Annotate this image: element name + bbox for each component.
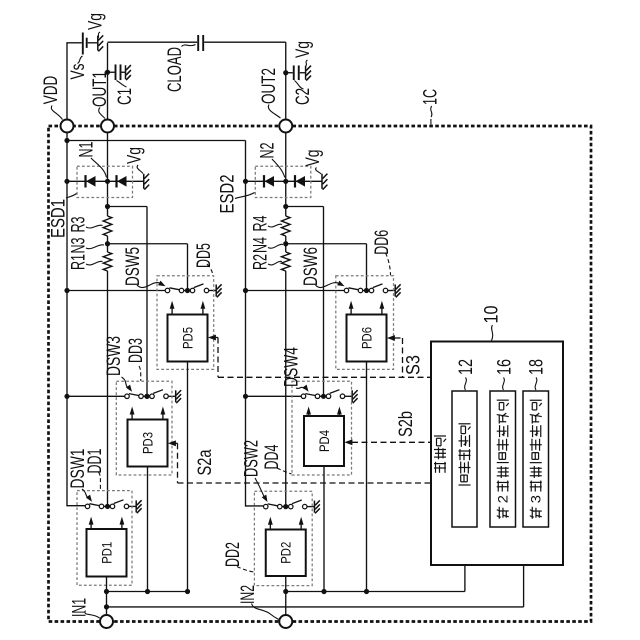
capacitor C1 plates bbox=[115, 64, 117, 80]
wire IN1 rail to control box bbox=[107, 606, 524, 608]
svg-text:3: 3 bbox=[529, 495, 544, 503]
wire feed to DSW1 bbox=[84, 505, 86, 507]
svg-text:10: 10 bbox=[482, 306, 503, 324]
signal S3 line from PD5 bbox=[208, 335, 216, 341]
switch DSW5 contact 3 bbox=[190, 288, 195, 293]
leader for DSW6 bbox=[316, 283, 340, 288]
switch DSW4 contact 1 bbox=[301, 394, 306, 399]
leader for C1 bbox=[117, 81, 127, 88]
svg-text:DSW6: DSW6 bbox=[301, 247, 322, 286]
wire R1 down to DSW1 common bbox=[107, 271, 109, 506]
2nd control signal generation box 16 bbox=[490, 391, 516, 527]
leader for 1C bbox=[431, 106, 432, 117]
switch DSW2 open lever bbox=[292, 500, 302, 504]
IC boundary box 1C (dashed) bbox=[49, 126, 592, 622]
wire PD1 to IN1 rail bbox=[106, 577, 108, 616]
switch DSW5 contact 4 bbox=[204, 288, 209, 293]
svg-text:DSW5: DSW5 bbox=[123, 247, 144, 286]
driver block DD2 dashed box bbox=[254, 491, 312, 585]
wire top to battery Vs bbox=[66, 42, 81, 44]
switch DSW6 contact 4 bbox=[383, 288, 388, 293]
svg-text:ESD2: ESD2 bbox=[218, 175, 239, 214]
wire PD collector rail channel 1 bbox=[107, 591, 188, 593]
wire DSW4 common segment bbox=[320, 395, 326, 397]
arrow PD4 output right bbox=[338, 411, 340, 417]
svg-text:CLOAD: CLOAD bbox=[165, 47, 186, 92]
svg-text:R4: R4 bbox=[251, 215, 272, 231]
leader for Vs bbox=[78, 56, 83, 64]
svg-text:R1: R1 bbox=[69, 254, 90, 270]
leader for 10 bbox=[492, 325, 493, 341]
wire R2 down to DSW2 common bbox=[285, 271, 287, 507]
arrow PD6 output left bbox=[350, 305, 352, 315]
switch DSW3 contact 4 bbox=[164, 394, 169, 399]
wire PD5 to IN1 rail bbox=[187, 362, 189, 592]
ground Vg (battery) bbox=[98, 35, 103, 51]
resistor R4 bbox=[281, 216, 290, 236]
svg-text:S2b: S2b bbox=[396, 411, 417, 437]
leader for 12 bbox=[465, 378, 467, 391]
label polarity determination unit bbox=[459, 475, 471, 485]
wire branch OUT2 node to DSW4 common bbox=[283, 204, 288, 209]
ESD1 dashed box bbox=[77, 166, 133, 197]
junction DSW5 feed on VDD rail bbox=[64, 288, 69, 293]
svg-text:IN2: IN2 bbox=[238, 585, 259, 604]
switch DSW5 contact 2 bbox=[179, 288, 184, 293]
switch DSW5 closed lever bbox=[169, 288, 179, 290]
leader for R4 bbox=[268, 224, 282, 227]
junction PD1 on rail bbox=[104, 589, 109, 594]
ground (DSW4) bbox=[352, 390, 357, 403]
wire OUT1 to capacitor CLOAD bbox=[108, 41, 198, 43]
leader for DD3 bbox=[139, 366, 141, 381]
wire feed to DSW4 bbox=[246, 395, 302, 397]
svg-text:R2: R2 bbox=[251, 254, 272, 270]
terminal VDD bbox=[61, 120, 74, 133]
svg-text:N1: N1 bbox=[77, 142, 98, 158]
arrow PD4 output left bbox=[308, 411, 310, 417]
wire C1 to ground bbox=[122, 71, 126, 73]
wire VDD branch 2 corner to DSW2 bbox=[246, 505, 264, 507]
svg-text:PD1: PD1 bbox=[99, 542, 114, 564]
switch DSW1 closed lever bbox=[89, 504, 99, 506]
3rd control signal generation box 18 bbox=[523, 391, 549, 527]
switch DSW1 open lever bbox=[114, 500, 124, 504]
ground (DSW5) bbox=[216, 284, 221, 297]
junction PD6 on rail bbox=[364, 589, 369, 594]
switch DSW5 open lever bbox=[194, 284, 204, 288]
leader for DSW2 bbox=[255, 478, 265, 499]
wire down to OUT2 terminal bbox=[285, 42, 287, 120]
leader for 18 bbox=[535, 378, 537, 391]
arrow PD6 output right bbox=[381, 305, 383, 315]
svg-text:PD3: PD3 bbox=[140, 432, 155, 454]
leader for DSW5 bbox=[137, 283, 161, 288]
photodiode box PD6 bbox=[347, 315, 387, 362]
wire PD collector rail channel 2 to control box bbox=[286, 591, 465, 593]
switch DSW4 contact 2 bbox=[315, 394, 320, 399]
wire DSW3 to ground bbox=[168, 395, 175, 397]
svg-text:PD4: PD4 bbox=[317, 430, 332, 452]
junction ESD1 at VDD rail bbox=[64, 179, 69, 184]
junction PD4 on rail bbox=[321, 589, 326, 594]
leader for N2 bbox=[272, 159, 285, 178]
leader for DSW4 bbox=[296, 387, 305, 388]
arrow PD3 output left bbox=[131, 411, 133, 420]
svg-text:R3: R3 bbox=[69, 217, 90, 233]
leader for IN1 bbox=[85, 611, 100, 619]
wire branch N4 to DSW6 common bbox=[286, 243, 367, 245]
svg-text:DD5: DD5 bbox=[194, 243, 215, 268]
wire C2 to ground bbox=[300, 72, 305, 74]
switch DSW6 open lever bbox=[373, 284, 383, 288]
switch DSW2 contact 2 bbox=[278, 504, 283, 509]
svg-text:N2: N2 bbox=[258, 143, 279, 159]
leader for Vg (C2 ground) bbox=[306, 60, 308, 66]
svg-text:1C: 1C bbox=[421, 89, 442, 105]
wire OUT1 chain upper bbox=[107, 133, 109, 217]
wire PD3 to IN1 rail bbox=[147, 467, 149, 592]
leader for N3 bbox=[86, 245, 104, 249]
wire DSW6 to ground bbox=[388, 290, 395, 292]
wire VDD rail corner to DSW1 bbox=[67, 505, 85, 507]
wire VDD rail vertical bbox=[66, 133, 68, 507]
switch DSW6 contact 2 bbox=[358, 288, 363, 293]
wire branch N3 to DSW5 common bbox=[108, 243, 188, 245]
switch DSW6 closed lever bbox=[348, 288, 358, 290]
leader for DD1 bbox=[99, 472, 101, 490]
polarity determination box 12 bbox=[452, 391, 477, 527]
signal S3 branch from PD6 bbox=[387, 335, 395, 341]
resistor R3 bbox=[103, 216, 112, 236]
wire DSW6 common segment bbox=[363, 290, 369, 292]
wire feed to DSW3 bbox=[67, 395, 125, 397]
leader for N4 bbox=[268, 244, 283, 248]
leader for 16 bbox=[503, 378, 505, 391]
svg-text:S3: S3 bbox=[404, 355, 425, 375]
switch DSW3 closed lever bbox=[129, 394, 139, 396]
svg-text:C2: C2 bbox=[293, 88, 314, 105]
arrow PD2 output left bbox=[269, 521, 271, 530]
ground (DSW6) bbox=[395, 284, 400, 297]
label 2nd control signal generation unit bbox=[497, 507, 509, 519]
junction DSW6 common bbox=[364, 288, 369, 293]
switch DSW1 contact 3 bbox=[110, 504, 115, 509]
wire top rail to channel 2 bbox=[67, 140, 246, 142]
wire R3 to N3 bbox=[107, 236, 109, 252]
leader for DD6 bbox=[386, 253, 391, 275]
leader for N1 bbox=[91, 158, 107, 178]
wire CLOAD to OUT2 corner bbox=[204, 41, 286, 43]
svg-text:Vg: Vg bbox=[293, 41, 314, 58]
leader for Vg (ESD1) bbox=[137, 165, 143, 174]
svg-text:DD2: DD2 bbox=[223, 542, 244, 567]
resistor R2 bbox=[281, 252, 290, 271]
ground (C1) bbox=[126, 65, 131, 80]
switch DSW3 contact 2 bbox=[139, 394, 144, 399]
ground Vg (C2) bbox=[306, 66, 311, 81]
photodiode box PD5 bbox=[168, 315, 208, 362]
resistor R1 bbox=[103, 252, 112, 271]
arrow PD3 output right bbox=[162, 411, 164, 420]
wire to capacitor C1 bbox=[108, 71, 115, 73]
switch DSW6 contact 1 bbox=[344, 288, 349, 293]
svg-text:Vg: Vg bbox=[125, 147, 146, 164]
wire DSW4 to ground bbox=[345, 395, 352, 397]
leader for ESD1 bbox=[66, 194, 77, 199]
junction ESD2 at OUT2 / node N2 bbox=[283, 179, 288, 184]
node N4 junction bbox=[283, 241, 288, 246]
wire R4 to N4 bbox=[285, 236, 287, 252]
leader for DD4 bbox=[277, 468, 292, 474]
driver block DD3 dashed box bbox=[116, 381, 172, 475]
junction DSW3 feed on VDD rail bbox=[64, 394, 69, 399]
svg-text:N3: N3 bbox=[69, 238, 90, 254]
wire feed to DSW2 bbox=[262, 506, 264, 508]
svg-text:S2a: S2a bbox=[195, 449, 216, 475]
svg-text:PD5: PD5 bbox=[180, 327, 195, 349]
capacitor C2 plates bbox=[293, 65, 295, 80]
arrow PD1 output left bbox=[90, 521, 92, 529]
ground Vg (ESD2) bbox=[322, 174, 327, 190]
wire VDD terminal to top bbox=[66, 43, 68, 133]
switch DSW6 contact 3 bbox=[369, 288, 374, 293]
wire ESD1 diode row bbox=[67, 180, 143, 182]
driver block DD1 dashed box bbox=[77, 491, 132, 586]
wire feed to DSW5 bbox=[67, 290, 165, 292]
driver block DD6 dashed box bbox=[336, 276, 394, 370]
photodiode box PD4 bbox=[304, 416, 344, 466]
svg-text:18: 18 bbox=[527, 359, 548, 375]
switch DSW4 contact 3 bbox=[326, 394, 331, 399]
wire DSW1 common segment bbox=[104, 505, 110, 507]
arrow PD2 output right bbox=[300, 521, 302, 530]
svg-text:DD4: DD4 bbox=[262, 444, 283, 469]
wire OUT2 chain upper bbox=[285, 133, 287, 217]
junction PD2 on rail bbox=[283, 589, 288, 594]
switch DSW1 contact 1 bbox=[85, 504, 90, 509]
terminal IN2 bbox=[279, 615, 292, 628]
svg-text:12: 12 bbox=[456, 359, 477, 375]
terminal OUT2 bbox=[279, 120, 292, 133]
wire battery to ground Vg bbox=[88, 42, 98, 44]
switch DSW4 contact 4 bbox=[340, 394, 345, 399]
arrow PD1 output right bbox=[121, 521, 123, 529]
svg-text:DSW4: DSW4 bbox=[282, 347, 303, 387]
leader for Vg (ESD2) bbox=[316, 168, 322, 175]
junction PD3 on rail bbox=[145, 589, 150, 594]
svg-text:ESD1: ESD1 bbox=[49, 199, 70, 238]
wire VDD branch 2 vertical bbox=[245, 141, 247, 507]
svg-text:DSW3: DSW3 bbox=[104, 336, 125, 376]
capacitor CLOAD plates bbox=[197, 35, 199, 51]
diode (ESD1 right) bbox=[117, 176, 127, 187]
switch DSW4 closed lever bbox=[305, 394, 315, 396]
svg-text:2: 2 bbox=[496, 495, 511, 503]
junction DSW2 common bbox=[283, 504, 288, 509]
ground (DSW1) bbox=[136, 500, 141, 513]
leader for Vg (battery ground) bbox=[98, 32, 100, 39]
junction DSW5 common bbox=[185, 288, 190, 293]
junction DSW4 common bbox=[321, 394, 326, 399]
wire DSW1 to ground bbox=[129, 505, 136, 507]
wire DSW2 to ground bbox=[307, 506, 314, 508]
svg-text:OUT1: OUT1 bbox=[90, 71, 111, 107]
signal S2a line from PD3 bbox=[168, 440, 176, 446]
svg-text:DD6: DD6 bbox=[372, 230, 393, 255]
control unit box 10 bbox=[431, 342, 563, 566]
junction ESD2 at VDD branch bbox=[243, 179, 248, 184]
diode (ESD2 right) bbox=[296, 176, 306, 187]
junction ESD1 at OUT1 / node N1 bbox=[105, 179, 110, 184]
node N3 junction bbox=[105, 241, 110, 246]
leader for DSW1 bbox=[82, 489, 89, 499]
leader for DD2 bbox=[237, 567, 254, 573]
leader for C2 bbox=[295, 81, 304, 90]
switch DSW3 open lever bbox=[153, 390, 163, 394]
terminal OUT1 bbox=[101, 120, 114, 133]
switch DSW2 closed lever bbox=[268, 504, 278, 506]
svg-text:DSW2: DSW2 bbox=[242, 440, 263, 477]
ESD2 dashed box bbox=[255, 166, 310, 197]
switch DSW5 contact 1 bbox=[165, 288, 170, 293]
leader for DD5 bbox=[207, 264, 213, 275]
wire DSW5 to ground bbox=[209, 290, 216, 292]
wire PD2 to IN2 rail bbox=[285, 576, 287, 615]
photodiode box PD2 bbox=[266, 530, 306, 577]
photodiode box PD1 bbox=[87, 529, 127, 577]
switch DSW2 contact 3 bbox=[289, 504, 294, 509]
arrow PD5 output right bbox=[202, 305, 204, 315]
leader for DSW3 bbox=[122, 377, 129, 389]
svg-text:DD1: DD1 bbox=[85, 449, 106, 474]
leader for ESD2 bbox=[235, 193, 255, 199]
junction C1 tap on OUT1 wire bbox=[105, 70, 110, 75]
switch DSW1 contact 2 bbox=[99, 504, 104, 509]
wire PD6 to IN2 rail bbox=[366, 362, 368, 592]
svg-text:PD6: PD6 bbox=[359, 327, 374, 349]
wire PD4 to IN2 rail bbox=[323, 466, 325, 592]
junction DSW6 feed on VDD branch 2 bbox=[243, 288, 248, 293]
svg-text:N4: N4 bbox=[251, 237, 272, 253]
switch DSW2 contact 1 bbox=[264, 504, 269, 509]
signal S2b line from PD4 bbox=[344, 439, 352, 445]
svg-text:VDD: VDD bbox=[41, 76, 62, 105]
svg-text:PD2: PD2 bbox=[279, 542, 294, 564]
svg-text:16: 16 bbox=[495, 359, 516, 375]
label 3rd control signal generation unit bbox=[530, 507, 542, 519]
leader for IN2 bbox=[252, 604, 280, 620]
photodiode box PD3 bbox=[128, 420, 168, 467]
wire feed to DSW6 bbox=[246, 290, 345, 292]
junction DSW3 common bbox=[144, 394, 149, 399]
switch DSW2 contact 4 bbox=[303, 504, 308, 509]
driver block DD5 dashed box bbox=[157, 276, 214, 370]
wire to capacitor C2 bbox=[286, 72, 293, 74]
junction VDD/top rail bbox=[64, 138, 69, 143]
svg-text:Vg: Vg bbox=[303, 150, 324, 167]
switch DSW3 contact 1 bbox=[125, 394, 130, 399]
wire DSW5 common segment bbox=[184, 290, 190, 292]
battery Vs plates bbox=[82, 33, 84, 55]
leader for R3 bbox=[86, 225, 103, 228]
svg-text:OUT2: OUT2 bbox=[259, 68, 280, 104]
svg-text:Vg: Vg bbox=[86, 13, 107, 30]
arrow PD5 output left bbox=[171, 305, 173, 315]
junction C2 tap on OUT2 wire bbox=[283, 70, 288, 75]
svg-text:C1: C1 bbox=[115, 88, 136, 105]
diode (ESD1 left) bbox=[86, 176, 96, 187]
diode (ESD2 left) bbox=[265, 176, 275, 187]
ground Vg (ESD1) bbox=[144, 174, 149, 190]
junction DSW1 common bbox=[105, 504, 110, 509]
wire OUT1 terminal up bbox=[107, 43, 109, 133]
switch DSW3 contact 3 bbox=[150, 394, 155, 399]
leader for CLOAD bbox=[182, 45, 196, 47]
svg-text:Vs: Vs bbox=[68, 64, 89, 80]
driver block DD4 dashed box bbox=[292, 381, 352, 475]
junction DSW3 common bbox=[144, 394, 149, 399]
svg-text:DD3: DD3 bbox=[126, 338, 147, 363]
wire DSW2 common segment bbox=[282, 506, 288, 508]
terminal IN1 bbox=[100, 615, 113, 628]
switch DSW4 open lever bbox=[330, 390, 340, 394]
wire ESD2 diode row bbox=[246, 180, 322, 182]
leader for OUT2 bbox=[268, 105, 280, 119]
leader for R2 bbox=[268, 261, 282, 265]
leader for VDD bbox=[51, 106, 62, 120]
junction PD5 on rail bbox=[185, 589, 190, 594]
junction IN1 rail bbox=[104, 604, 109, 609]
switch DSW1 contact 4 bbox=[124, 504, 129, 509]
wire DSW3 common segment bbox=[143, 395, 149, 397]
wire branch OUT1 node to DSW3 common bbox=[105, 204, 110, 209]
ground (DSW3) bbox=[176, 390, 181, 403]
leader for R1 bbox=[86, 261, 103, 265]
leader for OUT1 bbox=[99, 108, 105, 119]
junction DSW4 feed on VDD branch 2 bbox=[243, 394, 248, 399]
ground (DSW2) bbox=[314, 500, 319, 513]
label control unit (seigyobu) bbox=[434, 462, 446, 473]
